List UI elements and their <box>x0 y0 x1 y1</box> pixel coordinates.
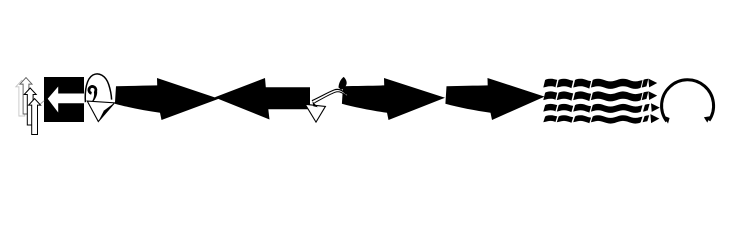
curl-down arrow glyph <box>85 74 114 122</box>
right swoosh arrow 2 <box>342 78 445 120</box>
wave row 4 segment 2 <box>557 115 573 123</box>
wave row 2 segment 3 <box>573 91 591 101</box>
wave row 4 arrowhead <box>650 114 659 123</box>
wave row 4 segment 4 <box>591 115 643 123</box>
left swoosh arrow <box>215 78 311 120</box>
right swoosh arrow 3 <box>445 78 544 120</box>
crest fin <box>339 77 347 90</box>
wave row 2 arrowhead <box>648 91 657 100</box>
square with white left arrow glyph <box>40 77 84 122</box>
wave row 2 segment 5 <box>642 92 649 101</box>
wave row 1 segment 5 <box>642 79 649 88</box>
wave row 2 segment 4 <box>591 91 643 101</box>
wave row 1 segment 4 <box>591 79 643 89</box>
swoop upper edge <box>312 89 346 100</box>
wave row 4 segment 1 <box>543 115 557 122</box>
wave row 3 segment 1 <box>543 104 557 112</box>
wave row 4 segment 5 <box>643 115 650 122</box>
wave row 1 segment 2 <box>557 79 573 89</box>
up arrow 1 <box>20 78 32 114</box>
wave row 3 segment 5 <box>643 104 650 112</box>
wave row 4 segment 3 <box>573 115 591 123</box>
wave row 2 segment 1 <box>543 91 557 100</box>
loop circle arrow glyph <box>662 80 714 124</box>
left loop arrowhead <box>663 116 669 124</box>
arrowhead outline <box>87 101 114 121</box>
right swoosh arrow 1 <box>115 78 219 120</box>
swoop ribbon <box>312 89 348 103</box>
thick right edge of head <box>98 103 114 122</box>
dome arc <box>85 74 111 102</box>
right loop arrowhead <box>704 116 710 122</box>
small spiral curl <box>87 85 97 102</box>
s-swoop down arrow glyph <box>305 77 347 122</box>
wave row 2 segment 2 <box>557 91 573 100</box>
small tick left of square <box>40 101 44 104</box>
wave row 3 segment 2 <box>557 104 573 112</box>
arrowhead outline <box>305 104 325 122</box>
wave row 1 segment 3 <box>573 79 591 89</box>
up arrow 3 <box>29 99 41 135</box>
wave row 1 segment 1 <box>543 79 557 88</box>
wavy wind bands glyph <box>543 79 660 124</box>
triple up-arrows glyph <box>16 78 41 135</box>
wave row 3 segment 3 <box>573 104 591 113</box>
wave row 1 arrowhead <box>648 79 657 88</box>
wave row 3 segment 4 <box>591 104 643 113</box>
ghost arrow <box>16 80 28 116</box>
swoop lower edge <box>314 92 347 103</box>
band end entering head <box>312 101 317 107</box>
wave row 3 arrowhead <box>651 103 660 112</box>
up arrow 2 <box>24 88 36 125</box>
